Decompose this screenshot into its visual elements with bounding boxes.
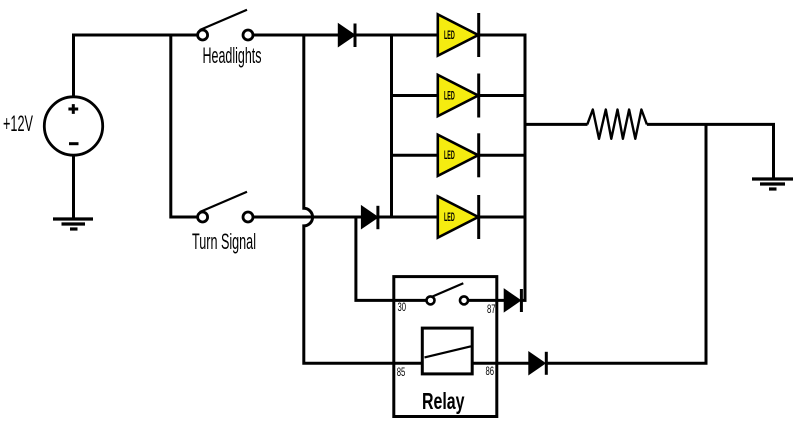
LED4: [438, 195, 479, 239]
LED2: [438, 74, 479, 118]
wire LED1 cathode to bus: [479, 34, 527, 37]
diode D3: [504, 289, 521, 312]
wire S1 to diode D1: [254, 34, 340, 37]
wire anode bus to LED3: [392, 154, 439, 157]
wire relay coil pin 86 to diode D4: [472, 362, 529, 365]
wire LED2 cathode to bus: [479, 94, 527, 97]
diode D2: [361, 206, 378, 229]
wire anode bus to LED2: [392, 94, 439, 97]
wire V1 top to headlight switch: [74, 35, 198, 97]
wire turn-signal line down to relay contact pin 30: [356, 217, 427, 300]
svg-text:86: 86: [486, 364, 495, 378]
LED anode bus: [390, 35, 393, 217]
switch S1 Headlights: [198, 10, 253, 40]
wire branch to turn signal switch: [171, 35, 198, 217]
wire D4 to resistor-ground net: [546, 124, 706, 363]
svg-text:Turn Signal: Turn Signal: [192, 229, 256, 254]
ground right: [752, 179, 793, 189]
ground left: [53, 219, 93, 229]
wire V1 bottom to ground: [72, 155, 75, 218]
relay box: [394, 277, 497, 417]
diode D4: [529, 352, 547, 375]
svg-text:LED: LED: [444, 89, 455, 102]
svg-text:+12V: +12V: [3, 111, 33, 136]
svg-text:LED: LED: [444, 211, 455, 224]
wire D3 to cathode bus: [521, 299, 526, 302]
relay coil: [422, 328, 472, 374]
svg-text:87: 87: [487, 302, 496, 316]
svg-text:LED: LED: [444, 29, 455, 42]
resistor R1: [587, 110, 647, 139]
wire cathode bus to resistor R1: [525, 123, 588, 126]
svg-text:85: 85: [397, 365, 406, 379]
switch S2 Turn Signal: [198, 192, 253, 222]
voltage source V1: [44, 97, 102, 155]
svg-text:Headlights: Headlights: [203, 43, 262, 68]
diode D1: [338, 24, 355, 48]
wire D2 to LED4: [378, 216, 439, 219]
LED cathode bus: [524, 35, 527, 300]
LED1: [438, 13, 479, 57]
svg-text:30: 30: [398, 300, 407, 314]
svg-text:LED: LED: [444, 149, 455, 162]
relay contact switch 30-87: [427, 283, 469, 304]
svg-text:Relay: Relay: [422, 388, 465, 414]
wire D1 to LED1: [355, 34, 439, 37]
wire resistor to right ground: [647, 124, 774, 178]
wire branch to relay coil with hop over turn-signal wire: [304, 35, 423, 363]
wire LED4 cathode to bus: [479, 216, 527, 219]
wire S2 to diode D2: [254, 216, 363, 219]
wire relay pin 87 to diode D3: [468, 299, 505, 302]
LED3: [438, 133, 479, 177]
wire LED3 cathode to bus: [479, 154, 527, 157]
